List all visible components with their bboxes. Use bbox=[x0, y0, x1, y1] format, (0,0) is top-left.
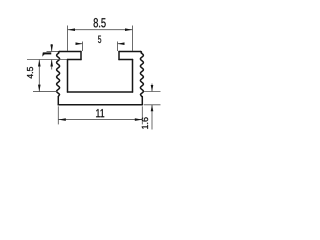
arrow 1.6 bottom (outside, pointing up) bbox=[151, 105, 154, 112]
thin dimension / extension lines bbox=[27, 26, 161, 130]
extension line base bottom right (y=104.8) bbox=[144, 104, 161, 106]
arrow 1 bottom (outside, pointing up) bbox=[50, 60, 53, 67]
extension line 8.5 left (x=67.5) bbox=[67, 26, 69, 52]
cavity left wall inner face bbox=[67, 60, 69, 93]
top face right segment bbox=[119, 51, 141, 53]
cavity right wall inner face bbox=[132, 60, 134, 93]
dimension texts (vector glyphs) bbox=[27, 18, 148, 129]
lip underside right bbox=[119, 59, 133, 61]
text 1 (rotated) bbox=[43, 53, 52, 57]
dim line 1 lower tail bbox=[51, 60, 53, 70]
dim line 8.5 bbox=[68, 29, 133, 31]
dim line 4.5 (x=39.3) bbox=[38, 60, 40, 92]
arrow 4.5 top (inside, pointing up) bbox=[38, 60, 41, 67]
arrow 8.5 right bbox=[125, 28, 133, 31]
slot right edge bbox=[118, 52, 120, 60]
top face left segment bbox=[60, 51, 82, 53]
extension line cavity floor right (y=92) bbox=[144, 91, 161, 93]
dim line 1 upper tail bbox=[51, 44, 53, 52]
right serrated wavy edge bbox=[140, 52, 143, 97]
profile outline: rail cross-section bbox=[57, 52, 144, 105]
lip underside left bbox=[68, 59, 82, 61]
text 8.5 bbox=[94, 18, 106, 27]
slot left edge bbox=[80, 52, 82, 60]
extension line 5 left (x=82.5) bbox=[82, 42, 84, 52]
dim line 11 bbox=[58, 119, 142, 121]
dim line 1.6 lower tail bbox=[151, 105, 153, 130]
text 5 bbox=[98, 36, 101, 43]
text 4.5 (rotated) bbox=[27, 67, 33, 79]
dim line 5 right tail bbox=[118, 43, 125, 45]
extension line lip underside left long (y=59.5) bbox=[27, 59, 67, 61]
extension line cavity floor left (y=91.6) bbox=[33, 91, 57, 93]
extension line base bottom-right corner down (x=142.3) bbox=[141, 106, 143, 124]
base right edge bbox=[141, 97, 143, 105]
arrow 11 right bbox=[135, 118, 143, 121]
extension line base bottom-left corner down (x=58.3) bbox=[57, 106, 59, 124]
arrow 5 left (outside, pointing right) bbox=[76, 42, 83, 45]
text 11 bbox=[96, 109, 104, 117]
dim line 5 left tail bbox=[76, 43, 83, 45]
base left edge bbox=[57, 97, 59, 105]
arrow 1.6 top (outside, pointing down) bbox=[151, 85, 154, 92]
extension line top face left (y=51.5) bbox=[47, 51, 59, 53]
cavity floor bbox=[68, 91, 133, 93]
extension line 8.5 right (x=132.5) bbox=[132, 26, 134, 52]
text 1.6 (rotated) bbox=[142, 117, 148, 128]
arrow 11 left bbox=[58, 118, 66, 121]
extension line 5 right (x=117.5) bbox=[117, 42, 119, 52]
arrows (filled) bbox=[38, 28, 153, 121]
left serrated wavy edge bbox=[57, 52, 60, 97]
dim line 1.6 upper tail bbox=[151, 84, 153, 92]
arrow 8.5 left bbox=[68, 28, 76, 31]
arrow 4.5 bottom (inside, pointing down) bbox=[38, 85, 41, 92]
arrow 5 right (outside, pointing left) bbox=[118, 42, 125, 45]
base bottom bbox=[58, 104, 142, 106]
arrow 1 top (outside, pointing down) bbox=[50, 45, 53, 52]
